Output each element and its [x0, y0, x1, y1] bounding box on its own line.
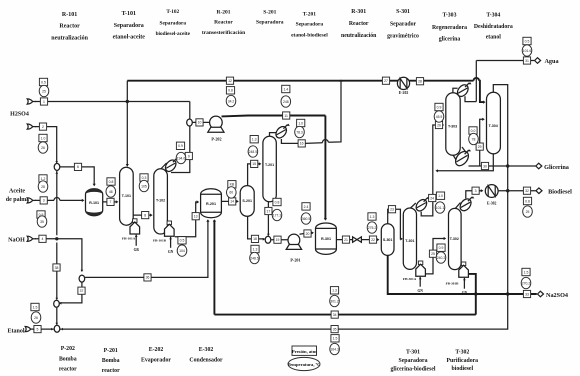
- svg-text:248.5: 248.5: [250, 256, 259, 260]
- column T-303: [446, 93, 460, 156]
- heat exchanger E-302: [485, 185, 498, 206]
- svg-text:30: 30: [483, 164, 487, 168]
- pump P-201: [286, 234, 301, 262]
- svg-text:7: 7: [110, 200, 112, 204]
- wire palm oil to R-101: [60, 199, 83, 201]
- svg-text:270.2: 270.2: [522, 281, 531, 285]
- wire P-202 discharge y=115.5: [222, 115, 326, 118]
- wire hop over acid riser: [322, 140, 328, 143]
- junction dot recycle x glicerina: [506, 164, 509, 167]
- indicator Biodiesel product: [523, 197, 533, 217]
- wire R-301 outlet y=239.6: [337, 239, 379, 241]
- svg-text:T-102: T-102: [166, 9, 179, 15]
- wire S-301 overhead: [388, 209, 402, 239]
- feed arrow H2SO4: [32, 101, 36, 103]
- heat exchanger T-201 condenser: [274, 124, 289, 140]
- stream box 7: [107, 198, 114, 205]
- svg-text:1.3: 1.3: [252, 138, 257, 142]
- wire T-302 bottoms: [468, 274, 475, 315]
- svg-text:15: 15: [252, 162, 256, 166]
- node header R-101: [51, 12, 88, 42]
- stream box 27: [382, 77, 389, 84]
- svg-text:T-201: T-201: [303, 12, 316, 18]
- svg-text:0.8: 0.8: [109, 180, 114, 184]
- svg-text:etanol: etanol: [486, 35, 502, 41]
- svg-text:T-302: T-302: [455, 350, 469, 356]
- svg-text:28: 28: [41, 185, 45, 189]
- svg-text:glicerina: glicerina: [439, 37, 461, 43]
- stream box 31: [523, 57, 530, 64]
- svg-text:0.9: 0.9: [437, 105, 442, 109]
- svg-text:gravimétrico: gravimétrico: [387, 34, 419, 40]
- svg-text:1.5: 1.5: [33, 305, 38, 309]
- svg-text:S-301: S-301: [383, 238, 393, 242]
- node header T-304: [474, 13, 513, 41]
- indicator T-101 bottoms: [139, 174, 149, 192]
- mixer node M4: [265, 236, 271, 243]
- svg-text:Reactor: Reactor: [59, 24, 80, 30]
- wire acid header riser x=325.4 to R-301: [324, 116, 326, 220]
- column S-301: [381, 224, 394, 256]
- svg-text:0.0: 0.0: [471, 129, 476, 133]
- wire Etanol feed y=329.1: [33, 328, 54, 330]
- stream box 9: [185, 152, 192, 159]
- indicator T-301 bottoms: [436, 244, 446, 263]
- wire oil recycle line y=314.6: [214, 314, 475, 316]
- svg-text:KB: KB: [230, 183, 235, 187]
- feed arrow Etanol: [30, 328, 34, 330]
- svg-text:177.3: 177.3: [273, 213, 282, 217]
- svg-text:105: 105: [141, 184, 147, 188]
- svg-text:T-201: T-201: [265, 163, 274, 167]
- svg-text:T-304: T-304: [486, 13, 500, 19]
- svg-text:Evaporador: Evaporador: [141, 358, 171, 364]
- svg-text:E-302: E-302: [487, 201, 497, 205]
- svg-text:Temperatura, ºC: Temperatura, ºC: [288, 362, 321, 367]
- svg-text:GN: GN: [462, 291, 468, 295]
- svg-text:reactor: reactor: [102, 368, 120, 374]
- svg-text:34: 34: [333, 313, 337, 317]
- indicator FB-101B outlet: [177, 237, 187, 257]
- wire main riser x=56.8: [56, 171, 58, 325]
- stream box 37: [78, 287, 85, 294]
- svg-text:26: 26: [34, 316, 38, 320]
- indicator T-304 side feed: [469, 127, 479, 145]
- svg-text:biodiesel-aceite: biodiesel-aceite: [156, 31, 191, 37]
- svg-text:Condensador: Condensador: [189, 358, 223, 364]
- wire Na2SO4 line y=294: [395, 293, 537, 295]
- svg-text:35: 35: [333, 327, 337, 331]
- node header T-101: [113, 11, 146, 41]
- stream box 32: [523, 187, 530, 194]
- mixer node M5: [187, 119, 193, 126]
- wire T-201 bottoms x=268.4: [267, 202, 269, 236]
- wire T-102 dome to condenser tick: [161, 163, 167, 169]
- column T-102: [154, 169, 168, 234]
- stream box 10: [196, 119, 203, 126]
- wire Biodiesel line y=190.7: [498, 190, 536, 192]
- svg-text:Separadora: Separadora: [399, 358, 428, 364]
- node label E-302: [189, 347, 223, 364]
- svg-text:0.3: 0.3: [142, 176, 147, 180]
- svg-text:301.2: 301.2: [330, 299, 339, 303]
- heat exchanger T-301 condenser: [414, 197, 429, 213]
- wire riser x=189.8 into mixer: [189, 102, 191, 119]
- indicator T-102 overhead: [176, 142, 186, 164]
- svg-text:T-304: T-304: [489, 124, 498, 128]
- wire hop over riser: [54, 197, 60, 200]
- junction dot recycle x biodiesel: [506, 189, 509, 192]
- svg-text:R-101: R-101: [89, 201, 99, 205]
- indicator palm oil feed: [38, 175, 48, 192]
- wire NaOH branch down to mixer M2: [60, 282, 82, 303]
- indicator P-201 discharge: [301, 203, 311, 225]
- reboiler FB-101B: [153, 221, 174, 254]
- svg-text:E-302: E-302: [199, 347, 214, 353]
- svg-text:17: 17: [267, 209, 271, 213]
- indicator T-201 overhead: [295, 119, 305, 137]
- svg-text:26: 26: [41, 146, 45, 150]
- svg-text:19: 19: [276, 238, 280, 242]
- junction dot T-101 riser x H2SO4 line: [126, 100, 129, 103]
- stream box 1: [40, 98, 47, 105]
- stream box 13: [192, 213, 199, 220]
- svg-text:1.3: 1.3: [253, 247, 258, 251]
- stream box 16: [298, 140, 305, 147]
- svg-text:101.1: 101.1: [436, 206, 445, 210]
- svg-text:T-303: T-303: [448, 125, 457, 129]
- svg-text:Na2SO4: Na2SO4: [546, 292, 568, 299]
- svg-text:101.6: 101.6: [523, 49, 532, 53]
- svg-text:transesterificación: transesterificación: [202, 30, 245, 36]
- svg-text:8: 8: [144, 213, 146, 217]
- column T-301: [403, 208, 416, 269]
- svg-text:6: 6: [77, 165, 79, 169]
- stream box 15: [251, 160, 258, 167]
- reboiler FH-101A: [122, 219, 140, 252]
- node label P-202 pump: [59, 346, 77, 373]
- indicator Agua product: [522, 37, 532, 56]
- svg-text:GB: GB: [134, 248, 140, 252]
- wire P-201 suction: [271, 239, 288, 241]
- svg-text:Bomba: Bomba: [102, 358, 120, 364]
- indicator S-201 bottoms: [250, 245, 260, 263]
- svg-text:FB-301B: FB-301B: [446, 282, 460, 286]
- wire T-101 to T-102 y=215.1: [133, 214, 151, 216]
- svg-text:1: 1: [43, 100, 45, 104]
- reactor R-101: [86, 189, 103, 216]
- node header T-102: [156, 9, 191, 37]
- stream box 18: [251, 235, 258, 242]
- svg-text:21: 21: [344, 238, 348, 242]
- node label T-302: [447, 350, 479, 373]
- valve V-301: [353, 237, 362, 242]
- svg-text:0.9: 0.9: [439, 246, 444, 250]
- svg-text:1.4: 1.4: [283, 87, 288, 91]
- wire R-201 outlet y=201.4: [222, 200, 238, 202]
- node header S-201: [256, 10, 284, 26]
- indicator T-301 overhead: [435, 192, 445, 213]
- svg-text:3: 3: [43, 199, 45, 203]
- wire ethanol recycle main y=329.1: [60, 85, 508, 330]
- svg-text:GN: GN: [168, 250, 174, 254]
- wire T-301 overhead downcomer: [421, 201, 433, 216]
- svg-text:T-301: T-301: [406, 350, 420, 356]
- svg-text:GN: GN: [418, 289, 424, 293]
- stream box 28: [416, 78, 423, 85]
- stream box 31b: [472, 187, 479, 194]
- svg-text:1.0: 1.0: [298, 121, 303, 125]
- stream box 6: [74, 163, 81, 170]
- svg-text:78.3: 78.3: [296, 130, 303, 134]
- wire T-201 condenser downcomer: [281, 139, 322, 143]
- wire P-202 suction: [193, 121, 210, 123]
- stream box 12: [226, 77, 233, 84]
- stream box 38: [53, 264, 60, 271]
- junction dot T-302 bottoms x Na2SO4: [474, 292, 477, 295]
- svg-text:13: 13: [194, 215, 198, 219]
- wire H2SO4 feed horizontal y=101.5: [35, 101, 190, 103]
- indicator NaOH feed: [37, 211, 47, 227]
- mixer node M2: [54, 300, 60, 307]
- stream box 3: [40, 197, 47, 204]
- junction dot NaOH line x riser: [55, 237, 58, 240]
- svg-text:Agua: Agua: [544, 58, 558, 65]
- pump P-202: [208, 116, 224, 141]
- indicator P-202 discharge: [281, 85, 291, 107]
- svg-text:T-301: T-301: [405, 239, 414, 243]
- wire T-303 condenser downcomer: [465, 96, 476, 101]
- node header T-201: [291, 12, 328, 39]
- svg-text:glicerina-biodiesel: glicerina-biodiesel: [390, 367, 435, 373]
- indicator Etanol feed: [31, 303, 41, 323]
- svg-text:35: 35: [40, 220, 44, 224]
- indicator R-301 outlet: [367, 213, 377, 233]
- svg-text:1.3: 1.3: [370, 215, 375, 219]
- indicator H2SO4 feed: [39, 78, 49, 96]
- wire T-301 overhead riser x=432.8: [433, 125, 443, 195]
- indicator oil recycle: [330, 287, 340, 307]
- stream box 26: [435, 121, 442, 128]
- svg-text:25: 25: [431, 252, 435, 256]
- svg-text:Separadora: Separadora: [114, 23, 144, 29]
- junction dot recycle x Na2SO4: [506, 292, 509, 295]
- svg-text:23: 23: [390, 208, 394, 212]
- node header S-301: [387, 9, 419, 40]
- svg-text:FH-301A: FH-301A: [403, 277, 417, 281]
- node label T-301: [390, 350, 435, 373]
- heat exchanger T-303 condenser: [455, 83, 470, 99]
- svg-text:0.9: 0.9: [178, 144, 183, 148]
- wire NaOH split header y=277.4: [85, 220, 208, 277]
- stream box 25: [429, 250, 436, 257]
- wire P-201 discharge: [300, 233, 313, 234]
- wire T-201 dome to condenser tick: [270, 133, 277, 137]
- stream box 36: [144, 274, 151, 281]
- legend temperature ellipse: [288, 357, 321, 370]
- svg-text:2: 2: [42, 125, 44, 129]
- stream box 20: [304, 230, 311, 237]
- svg-text:T-101: T-101: [122, 11, 136, 17]
- column S-201: [240, 186, 254, 217]
- svg-text:1.5: 1.5: [524, 270, 529, 274]
- indicator R-101 outlet: [106, 178, 116, 197]
- svg-text:25: 25: [526, 210, 530, 214]
- indicator Na2SO4 product: [521, 268, 531, 288]
- svg-text:1.0: 1.0: [438, 194, 443, 198]
- svg-text:P-202: P-202: [211, 137, 221, 142]
- stream box 21: [342, 236, 349, 243]
- svg-text:360.5: 360.5: [302, 217, 311, 221]
- wire T-102 overhead riser x=189.8: [171, 126, 190, 172]
- feed arrow NaOH: [32, 238, 36, 240]
- stream box 5: [34, 326, 41, 333]
- svg-text:164.3: 164.3: [330, 347, 339, 351]
- wire T-303 reboiler return tick: [462, 147, 466, 153]
- indicator ethanol recycle: [330, 335, 340, 355]
- reboiler FH-301A: [403, 261, 426, 293]
- svg-text:Regeneradora: Regeneradora: [432, 25, 467, 31]
- wire T-303 dome to condenser tick: [453, 88, 458, 94]
- svg-text:Reactor: Reactor: [349, 21, 369, 27]
- svg-text:1.2: 1.2: [41, 177, 46, 181]
- svg-text:46: 46: [109, 190, 113, 194]
- svg-text:FH-101A: FH-101A: [122, 237, 136, 241]
- svg-text:3: 3: [475, 189, 477, 193]
- svg-text:104: 104: [179, 249, 185, 253]
- svg-text:Bomba: Bomba: [59, 357, 77, 363]
- wire mixer to R-101 top: [60, 167, 94, 186]
- wire T-304 side feed riser x=479.7: [480, 119, 484, 166]
- reboiler FB-301B: [446, 262, 469, 295]
- svg-text:Separadora: Separadora: [296, 22, 324, 28]
- wire Agua line y=60.5: [476, 60, 534, 62]
- svg-text:reactor: reactor: [59, 367, 77, 373]
- svg-text:neutralización: neutralización: [51, 36, 88, 42]
- stream box 22: [369, 236, 376, 243]
- feed label Aceite de palma: [6, 189, 30, 203]
- wire hop over Agua riser: [474, 78, 480, 81]
- stream box 17: [265, 207, 272, 214]
- indicator top header: [226, 87, 236, 107]
- svg-text:240.2: 240.2: [437, 256, 446, 260]
- svg-text:5: 5: [37, 327, 39, 331]
- svg-text:12: 12: [228, 79, 232, 83]
- stream box 4: [39, 235, 46, 242]
- svg-text:T-302: T-302: [450, 237, 459, 241]
- wire T-201 overhead to top header: [328, 82, 341, 143]
- indicator T-201 bottoms: [272, 198, 282, 220]
- svg-text:1.5: 1.5: [333, 337, 338, 341]
- wire S-201 bottoms: [248, 216, 265, 239]
- svg-text:R-201: R-201: [216, 10, 230, 16]
- svg-text:biodiesel: biodiesel: [452, 366, 474, 372]
- svg-text:0.5: 0.5: [180, 239, 185, 243]
- svg-text:R-301: R-301: [321, 237, 331, 241]
- svg-text:16: 16: [300, 142, 304, 146]
- svg-text:T-303: T-303: [443, 13, 457, 19]
- svg-text:S-201: S-201: [242, 199, 252, 203]
- svg-text:FB-101B: FB-101B: [153, 239, 167, 243]
- svg-text:31: 31: [525, 59, 529, 63]
- wire T-302 dome to condenser tick: [455, 203, 461, 209]
- svg-text:E-202: E-202: [149, 347, 164, 353]
- wire top header corner down to T-304: [479, 81, 484, 102]
- svg-text:P-201: P-201: [104, 348, 118, 354]
- wire R-201 recycle riser x=214.4: [213, 220, 215, 315]
- svg-text:Reactor: Reactor: [214, 20, 233, 26]
- svg-text:10: 10: [198, 121, 202, 125]
- svg-text:Presión, atm: Presión, atm: [292, 349, 317, 354]
- svg-text:Biodiesel: Biodiesel: [548, 188, 572, 195]
- node header T-303: [432, 13, 467, 43]
- indicator acid 2 feed: [38, 134, 48, 153]
- svg-text:Etanol: Etanol: [7, 329, 24, 335]
- svg-text:Separadora: Separadora: [160, 21, 187, 27]
- svg-text:29: 29: [478, 145, 482, 149]
- indicator T-303 feed: [434, 103, 444, 122]
- svg-text:E-202: E-202: [399, 91, 409, 95]
- heat exchanger T-102 condenser: [163, 158, 178, 174]
- mixer node M6: [79, 275, 85, 282]
- wire S-201 overhead: [248, 164, 261, 186]
- column T-302: [449, 208, 462, 269]
- indicator T-201 feed: [248, 136, 258, 158]
- wire T-102 bottoms to R-201: [175, 202, 198, 237]
- stream box 29: [476, 143, 483, 150]
- heat exchanger E-202: [397, 77, 409, 95]
- svg-text:etanol-biodiesel: etanol-biodiesel: [291, 33, 328, 39]
- svg-text:20: 20: [306, 232, 310, 236]
- svg-text:28: 28: [418, 80, 422, 84]
- stream box 35: [331, 326, 338, 333]
- svg-text:P-202: P-202: [61, 346, 75, 352]
- stream box 24: [429, 194, 436, 201]
- wire T-303 bottoms tick: [453, 155, 457, 161]
- svg-text:1.0: 1.0: [41, 136, 46, 140]
- svg-text:P-201: P-201: [290, 258, 300, 263]
- stream box 19: [274, 236, 281, 243]
- wire T-304 bottoms: [437, 154, 494, 171]
- svg-text:4: 4: [42, 237, 44, 241]
- heat exchanger T-303 reboiler: [453, 149, 471, 168]
- svg-text:11: 11: [284, 114, 288, 118]
- wire T-301 bottoms to T-302: [426, 239, 446, 274]
- svg-text:etanol-aceite: etanol-aceite: [113, 35, 146, 41]
- wire S-301 bottoms: [388, 255, 395, 294]
- svg-text:24: 24: [430, 196, 434, 200]
- column T-101: [120, 167, 134, 225]
- svg-text:R-301: R-301: [351, 9, 366, 15]
- node label E-202: [141, 347, 171, 364]
- svg-text:S-201: S-201: [263, 10, 276, 16]
- svg-text:78: 78: [472, 137, 476, 141]
- stream box 23: [388, 206, 395, 213]
- stream box 30: [481, 162, 488, 169]
- stream box 8: [142, 212, 149, 219]
- svg-text:32: 32: [525, 189, 529, 193]
- svg-text:36: 36: [146, 276, 150, 280]
- junction arrow from T-201 overhead: [340, 79, 343, 81]
- svg-text:NaOH: NaOH: [8, 237, 25, 243]
- svg-text:Glicerina: Glicerina: [544, 164, 569, 171]
- column T-304: [487, 92, 501, 154]
- node header R-301: [341, 9, 377, 39]
- mixer node M3: [54, 325, 60, 332]
- stream box 14: [229, 198, 236, 205]
- svg-text:R-201: R-201: [206, 202, 216, 206]
- stream box 34: [331, 311, 338, 318]
